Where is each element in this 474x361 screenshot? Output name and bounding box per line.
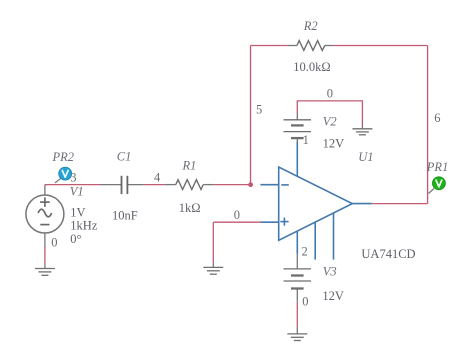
svg-text:1kHz: 1kHz <box>70 218 98 232</box>
svg-text:4: 4 <box>154 170 161 184</box>
svg-text:V1: V1 <box>70 184 84 198</box>
svg-text:12V: 12V <box>322 289 344 303</box>
svg-text:10nF: 10nF <box>112 209 138 223</box>
svg-text:5: 5 <box>256 102 262 116</box>
svg-text:10.0kΩ: 10.0kΩ <box>293 60 330 74</box>
svg-text:1: 1 <box>303 133 309 147</box>
svg-text:2: 2 <box>302 245 308 259</box>
svg-text:UA741CD: UA741CD <box>361 247 415 261</box>
svg-text:1kΩ: 1kΩ <box>179 201 201 215</box>
svg-text:C1: C1 <box>117 150 132 164</box>
svg-text:V3: V3 <box>323 264 337 278</box>
svg-text:1V: 1V <box>70 205 85 219</box>
svg-text:V2: V2 <box>323 115 337 129</box>
svg-text:6: 6 <box>434 111 440 125</box>
svg-text:PR2: PR2 <box>52 150 75 164</box>
svg-text:0: 0 <box>234 208 240 222</box>
svg-text:0: 0 <box>51 236 57 250</box>
svg-text:U1: U1 <box>358 150 373 164</box>
svg-text:R1: R1 <box>182 159 197 173</box>
svg-text:0: 0 <box>327 87 333 101</box>
svg-text:12V: 12V <box>323 137 345 151</box>
svg-text:R2: R2 <box>303 19 318 33</box>
svg-text:0°: 0° <box>70 232 81 246</box>
svg-text:PR1: PR1 <box>426 160 449 174</box>
svg-text:0: 0 <box>302 295 308 309</box>
